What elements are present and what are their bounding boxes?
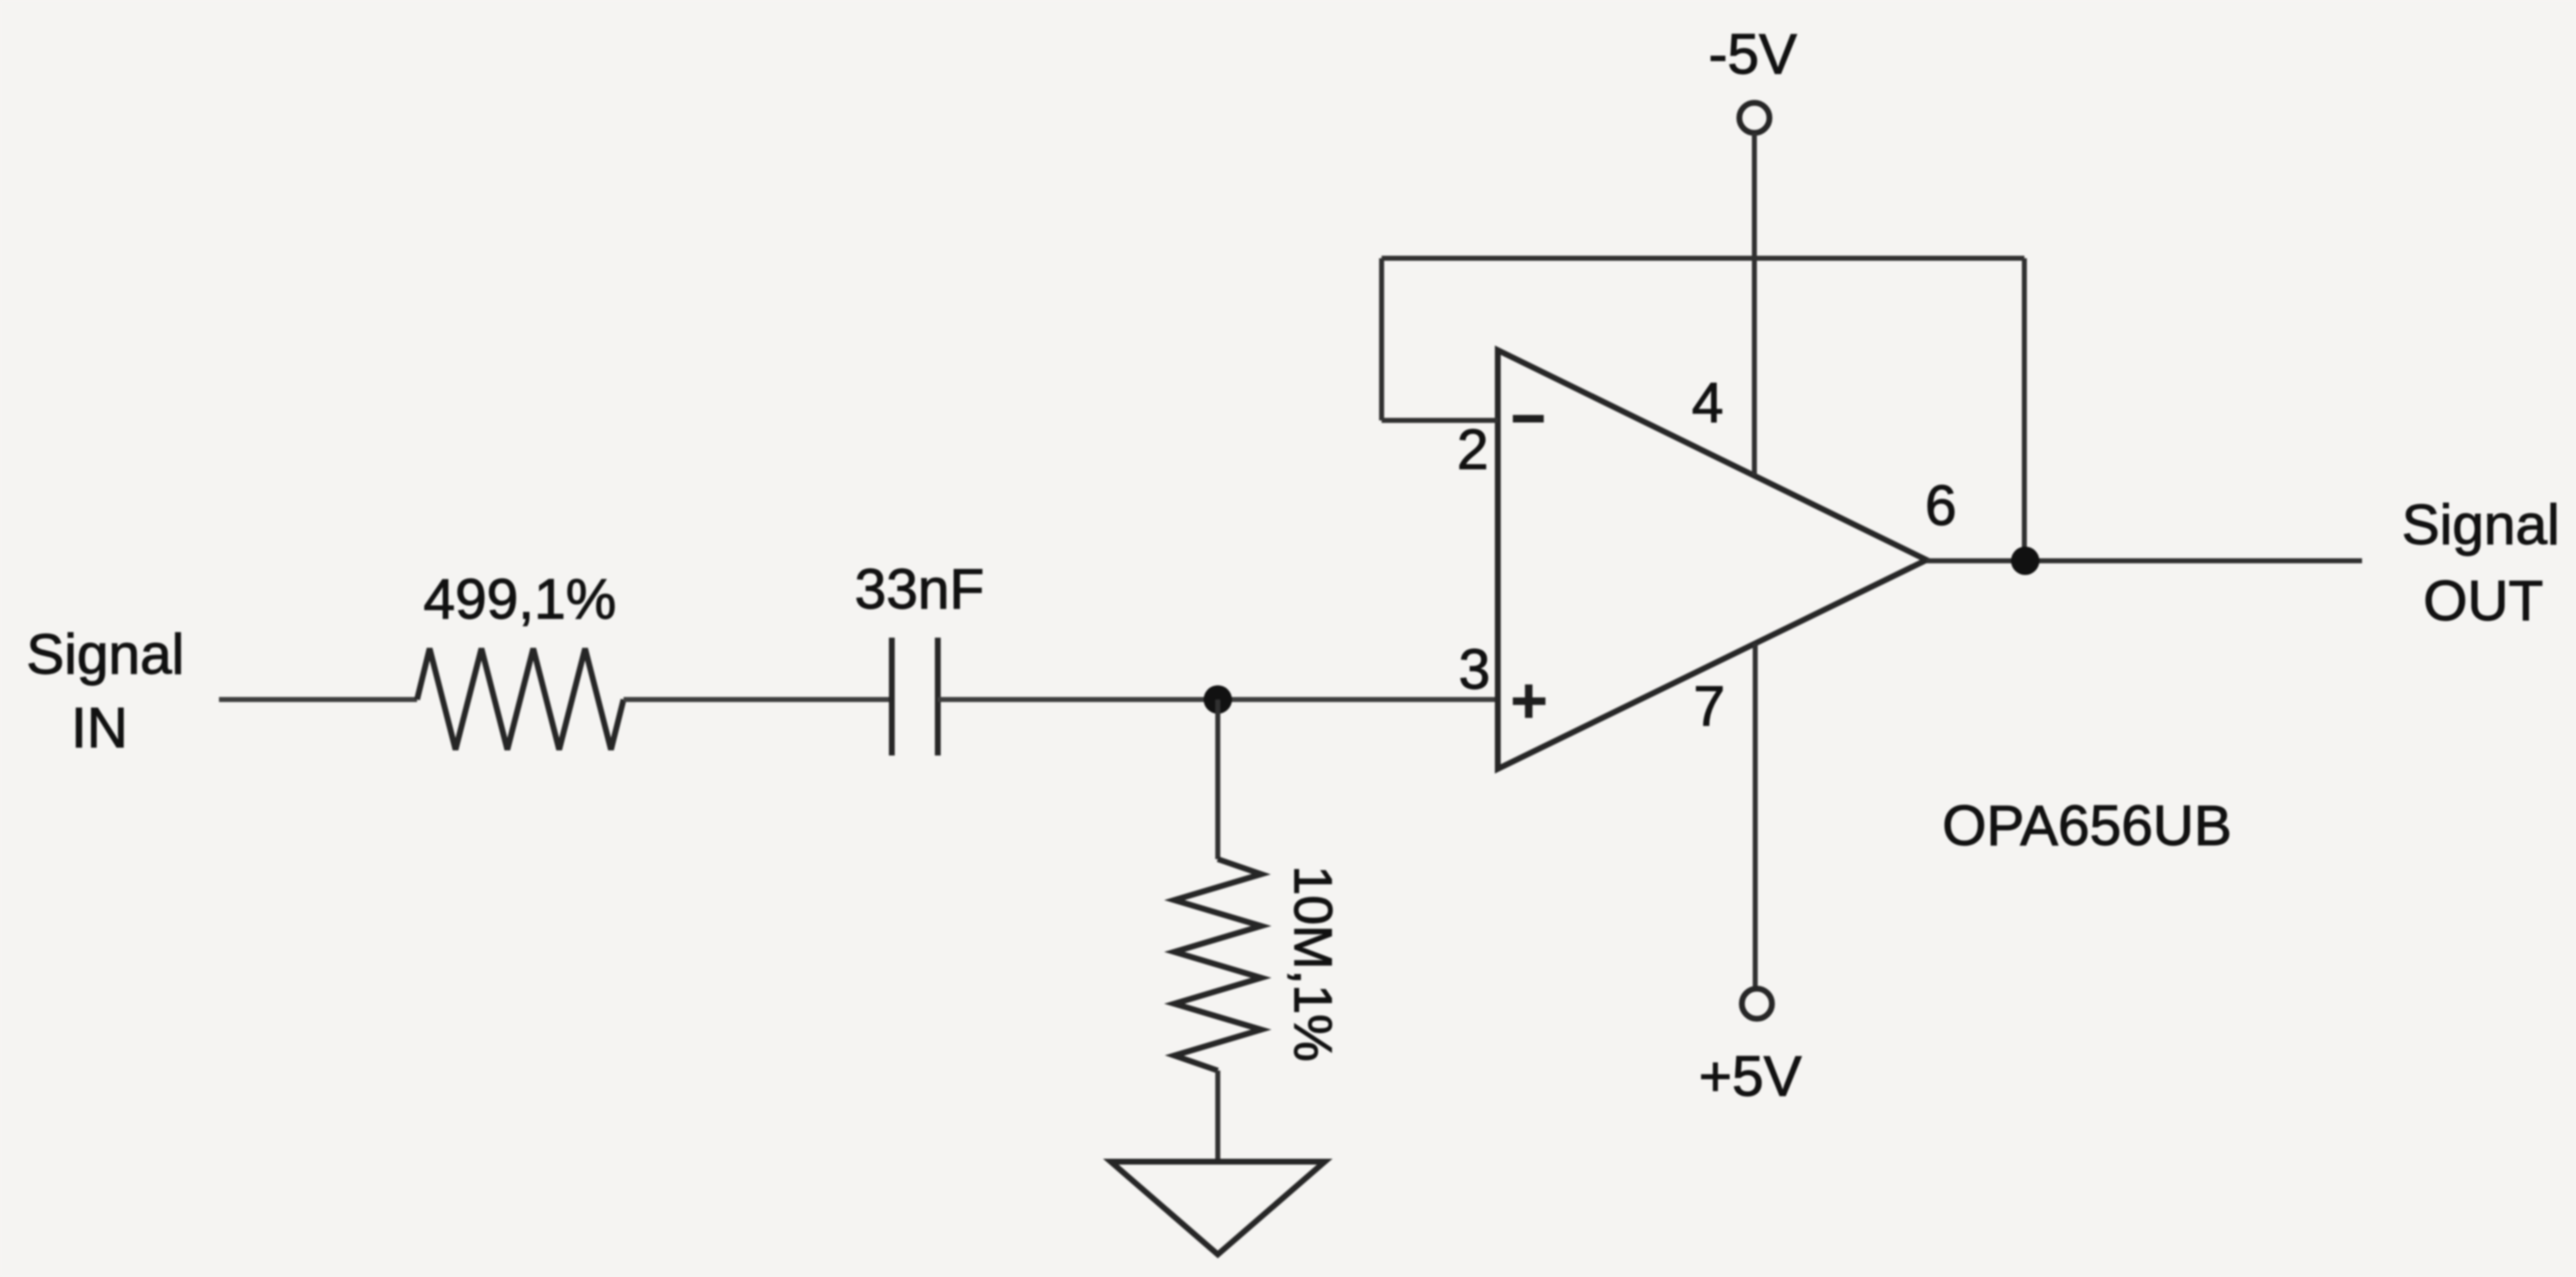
resistor R2 (1174, 859, 1261, 1071)
feedback wire right vertical (2022, 258, 2027, 561)
svg-text:6: 6 (1925, 474, 1957, 537)
wire -5V to pin 4 (1752, 133, 1757, 476)
output wire pin 6 to Signal OUT (1927, 558, 2362, 563)
svg-text:OPA656UB: OPA656UB (1942, 794, 2232, 857)
plus sign non-inverting input (1513, 684, 1545, 718)
svg-text:7: 7 (1693, 674, 1725, 738)
ground (1111, 1162, 1325, 1254)
wire R1 to C1 (624, 697, 889, 702)
node label Signal OUT (2401, 493, 2559, 633)
output node junction dot (2011, 547, 2039, 575)
op-amp U1 (1498, 350, 1927, 769)
svg-text:2: 2 (1457, 418, 1489, 481)
svg-text:10M,1%: 10M,1% (1283, 866, 1343, 1062)
capacitor C1 (892, 638, 938, 756)
+5V supply terminal (1742, 989, 1772, 1019)
node label Signal IN (26, 623, 184, 760)
wire node A to op-amp pin 3 (1218, 697, 1498, 702)
minus sign inverting input (1513, 415, 1544, 423)
svg-text:4: 4 (1692, 371, 1723, 435)
svg-text:OUT: OUT (2423, 569, 2543, 633)
wire node A down to R2 (1215, 700, 1220, 859)
resistor R1 (417, 649, 624, 750)
svg-text:Signal: Signal (2401, 493, 2559, 557)
wire pin 2 to feedback (1382, 418, 1498, 423)
-5V supply terminal (1739, 103, 1769, 133)
svg-text:Signal: Signal (26, 623, 184, 686)
svg-text:33nF: 33nF (855, 557, 985, 621)
wire C1 to node A (938, 697, 1218, 702)
wire R2 to ground (1215, 1071, 1220, 1162)
node A junction dot (1204, 685, 1232, 714)
wire pin 7 to +5V (1753, 644, 1758, 989)
feedback wire left vertical (1379, 258, 1384, 420)
svg-text:499,1%: 499,1% (424, 567, 617, 631)
svg-text:+5V: +5V (1699, 1045, 1803, 1108)
svg-text:3: 3 (1459, 638, 1490, 701)
svg-text:IN: IN (71, 696, 128, 760)
wire Signal IN to R1 (219, 697, 417, 702)
feedback wire top horizontal (1382, 256, 2024, 261)
svg-text:-5V: -5V (1708, 23, 1797, 86)
